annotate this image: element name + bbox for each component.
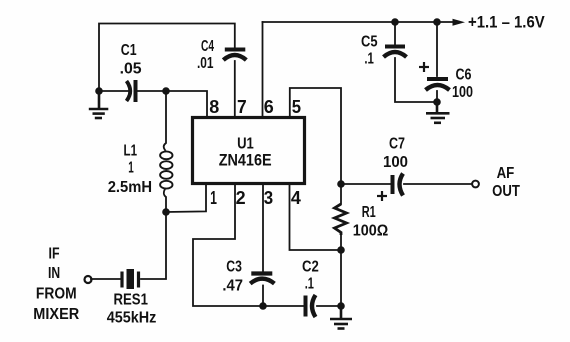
capacitor C1 xyxy=(127,80,136,102)
svg-text:IF: IF xyxy=(49,245,60,262)
wire: node A down to L1 top xyxy=(164,91,166,150)
capacitor C6 (electrolytic) xyxy=(426,79,450,90)
pin 3 xyxy=(264,188,273,208)
capacitor C3 xyxy=(250,274,274,284)
capacitor C4 xyxy=(223,50,246,61)
capacitor C5 xyxy=(384,47,407,58)
svg-text:100Ω: 100Ω xyxy=(353,223,389,240)
svg-text:ZN416E: ZN416E xyxy=(219,152,272,170)
svg-text:U1: U1 xyxy=(237,136,254,153)
ceramic resonator RES1 xyxy=(122,269,139,289)
label R1 value xyxy=(353,204,389,240)
capacitor C2 xyxy=(306,295,316,317)
label C1 value xyxy=(120,42,142,78)
inductor L1 xyxy=(160,151,172,188)
pin 5 xyxy=(292,97,301,117)
label C5 value xyxy=(361,34,378,68)
svg-text:5: 5 xyxy=(292,97,301,117)
svg-text:C4: C4 xyxy=(201,38,214,55)
IF IN terminal xyxy=(85,276,92,283)
wire: C2 right lead to node D xyxy=(317,305,341,307)
svg-text:3: 3 xyxy=(264,188,273,208)
wire: IC pin 3 down through C3 top lead xyxy=(262,184,264,271)
svg-text:.05: .05 xyxy=(120,61,142,78)
label C7 value xyxy=(383,136,408,172)
label RES1 value xyxy=(107,292,157,327)
wire: R1 bottom lead xyxy=(340,234,342,250)
label C6 polarity + xyxy=(419,62,429,72)
svg-text:8: 8 xyxy=(209,97,219,117)
label IF IN FROM MIXER xyxy=(33,245,79,323)
wire: C5 bottom lead to C6 ground node xyxy=(395,58,437,102)
wire: C6 top lead xyxy=(436,22,438,76)
svg-text:IN: IN xyxy=(48,265,60,282)
ground (C5/C6 node) xyxy=(426,102,450,123)
node C junction (C3 bottom / ground bus) xyxy=(259,302,267,310)
svg-text:C7: C7 xyxy=(389,136,405,153)
svg-text:C3: C3 xyxy=(226,259,242,276)
label AF OUT xyxy=(492,165,520,200)
pin 4 xyxy=(291,188,301,208)
rail junction (C6) xyxy=(433,18,441,26)
wire: IC pin 2 to bottom ground bus xyxy=(193,184,263,306)
wire: IC pin 7 up to C4 bottom xyxy=(234,61,236,117)
op-amp-style IC U1 ZN416E xyxy=(193,118,305,184)
ground (C2/R1 node) xyxy=(330,306,352,329)
pin 8 xyxy=(209,97,219,117)
supply arrow +1.1-1.6V xyxy=(453,13,545,31)
wire: left top rail from C1/ground node to C4 top xyxy=(99,24,235,92)
svg-text:100: 100 xyxy=(383,154,408,171)
wire: IC pin 6 up to supply rail xyxy=(262,22,264,117)
svg-text:C1: C1 xyxy=(121,42,137,59)
node D junction (C2 / ground) xyxy=(337,302,345,310)
node A junction (C1/L1/pin8) xyxy=(162,87,170,95)
wire: node G (output node) to C7 left plate xyxy=(341,183,390,185)
wire: IC pin 4 to node E (R1 bottom) xyxy=(290,184,342,250)
AF OUT terminal xyxy=(472,181,479,188)
node F junction (C5/C6/ground) xyxy=(433,98,441,106)
resistor R1 xyxy=(335,204,347,235)
wire: C3 bottom lead to node C xyxy=(262,286,264,307)
label C4 value xyxy=(197,38,214,72)
wire: RES1 left lead to IF IN terminal xyxy=(91,278,120,280)
svg-text:4: 4 xyxy=(291,188,301,208)
svg-text:6: 6 xyxy=(264,97,274,117)
capacitor C7 (electrolytic coupling) xyxy=(393,174,404,196)
svg-text:1: 1 xyxy=(210,188,217,208)
wire: C1 left lead xyxy=(99,90,130,92)
node B junction (L1/pin1/RES1) xyxy=(162,208,170,216)
label C3 value xyxy=(222,259,243,295)
svg-text:FROM: FROM xyxy=(36,285,77,302)
svg-text:1: 1 xyxy=(128,160,134,177)
wire: node B to IC pin 1 xyxy=(166,184,206,212)
label C7 polarity + xyxy=(377,191,387,201)
svg-text:MIXER: MIXER xyxy=(33,306,79,323)
svg-text:RES1: RES1 xyxy=(114,292,148,309)
svg-text:+1.1 – 1.6V: +1.1 – 1.6V xyxy=(468,13,545,31)
ground (C1 node) xyxy=(89,91,109,118)
svg-text:C2: C2 xyxy=(302,259,319,276)
pin 7 xyxy=(237,97,247,117)
svg-text:7: 7 xyxy=(237,97,247,117)
wire: IC pin 5 over to output column xyxy=(290,88,341,184)
wire: node A to IC pin 8 xyxy=(166,91,207,117)
node E junction (R1 bottom / pin4) xyxy=(337,246,345,254)
pin 6 xyxy=(264,97,274,117)
svg-text:.01: .01 xyxy=(197,55,214,72)
pin 2 xyxy=(236,188,246,208)
svg-text:R1: R1 xyxy=(362,204,376,221)
pin 1 xyxy=(210,188,217,208)
svg-text:AF: AF xyxy=(497,165,515,182)
svg-text:100: 100 xyxy=(452,84,473,101)
label L1 value xyxy=(108,143,152,197)
svg-text:.1: .1 xyxy=(305,276,314,293)
wire: C7 right lead to AF OUT terminal xyxy=(404,183,472,185)
svg-text:L1: L1 xyxy=(124,143,138,160)
label C6 value xyxy=(452,67,473,102)
wire: C5 top lead xyxy=(394,22,396,44)
wire: C1 right lead to node A xyxy=(137,90,166,92)
wire: node E down to node D xyxy=(340,250,342,306)
svg-text:455kHz: 455kHz xyxy=(107,310,157,327)
svg-text:OUT: OUT xyxy=(492,183,520,200)
svg-text:2: 2 xyxy=(236,188,246,208)
svg-text:.1: .1 xyxy=(364,51,374,68)
wire: node B down to RES1 right lead xyxy=(141,212,166,279)
svg-text:C6: C6 xyxy=(456,67,472,84)
node G junction (pin5 / R1 / C7 output node) xyxy=(337,180,345,188)
wire: L1 bottom to node B xyxy=(164,189,166,212)
rail junction (C5) xyxy=(391,18,399,26)
svg-text:.47: .47 xyxy=(222,278,243,295)
svg-text:C5: C5 xyxy=(361,34,378,51)
wire: C6 bottom lead to node F xyxy=(436,91,438,102)
wire: supply rail to arrow xyxy=(263,21,454,23)
label C2 value xyxy=(302,259,319,293)
wire: node C to C2 left plate xyxy=(263,305,303,307)
node junction (C1 left / ground) xyxy=(95,87,103,95)
svg-text:2.5mH: 2.5mH xyxy=(108,179,152,196)
wire: R1 top lead xyxy=(340,184,342,204)
